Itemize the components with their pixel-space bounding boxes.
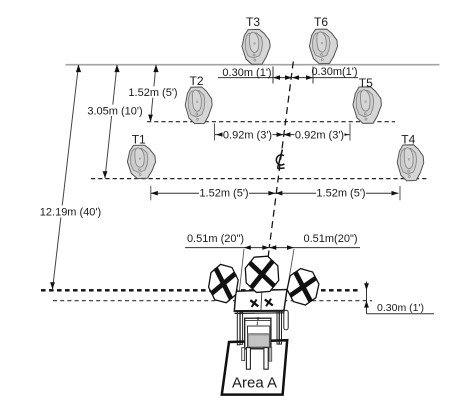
svg-text:0.30m (1'): 0.30m (1') (222, 67, 271, 79)
svg-text:0.92m (3'): 0.92m (3') (223, 130, 272, 142)
svg-text:Area A: Area A (232, 374, 277, 391)
svg-text:0.30m(1'): 0.30m(1') (311, 66, 357, 78)
svg-text:1.52m (5'): 1.52m (5') (199, 188, 248, 200)
svg-text:T2: T2 (189, 74, 203, 88)
svg-text:T4: T4 (401, 132, 415, 146)
svg-text:3.05m (10'): 3.05m (10') (87, 105, 142, 117)
svg-text:0.92m (3'): 0.92m (3') (295, 130, 344, 142)
svg-text:1.52m (5'): 1.52m (5') (316, 188, 365, 200)
svg-text:T6: T6 (314, 15, 328, 29)
svg-text:T5: T5 (359, 76, 373, 90)
svg-text:T1: T1 (132, 133, 146, 147)
svg-text:T3: T3 (246, 15, 260, 29)
svg-text:1.52m (5'): 1.52m (5') (128, 87, 177, 99)
svg-text:0.51m (20"): 0.51m (20") (187, 233, 244, 245)
svg-text:12.19m (40'): 12.19m (40') (40, 207, 101, 219)
svg-text:0.51m(20"): 0.51m(20") (303, 233, 357, 245)
svg-text:0.30m (1'): 0.30m (1') (377, 302, 424, 314)
